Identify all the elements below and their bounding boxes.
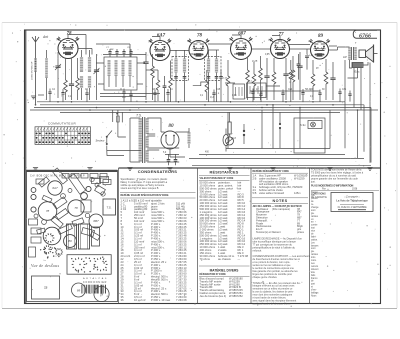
osc trimmer	[122, 52, 125, 54]
capacitor	[259, 94, 262, 96]
svg-text:6A7: 6A7	[52, 186, 58, 190]
wire	[338, 47, 369, 68]
wire	[225, 83, 280, 86]
wire	[161, 131, 190, 133]
wire	[165, 154, 179, 165]
chassis component block	[53, 168, 68, 184]
svg-text:port: port	[311, 283, 315, 286]
wire	[292, 56, 294, 100]
wire	[312, 60, 314, 100]
capacitor	[301, 93, 304, 95]
wire	[57, 52, 59, 98]
svg-text:89: 89	[68, 239, 72, 243]
oscillator coil assembly	[104, 57, 137, 90]
socket circle 89	[72, 283, 86, 297]
wire	[299, 108, 301, 149]
svg-text:Jeu de boutons (les 4)W 686725: Jeu de boutons (les 4)W 6867252	[200, 294, 244, 298]
wire	[299, 52, 301, 100]
wire	[38, 94, 44, 96]
chassis hole	[61, 194, 66, 199]
svg-text:0,1: 0,1	[210, 95, 214, 99]
svg-text:0,1: 0,1	[122, 95, 126, 99]
chassis component block	[72, 218, 84, 226]
resistor R5	[156, 80, 160, 90]
svg-text:change: change	[311, 207, 319, 209]
wire	[152, 37, 160, 41]
trimmer caps T2	[207, 77, 211, 79]
ground	[327, 168, 332, 171]
wire	[112, 110, 114, 122]
resistor R12	[291, 70, 295, 82]
svg-text:lampes: lampes	[311, 245, 319, 247]
wire	[30, 109, 378, 111]
wire	[147, 148, 179, 162]
wire	[206, 70, 208, 100]
svg-text:sont: sont	[311, 209, 316, 212]
svg-text:T.S.: T.S.	[136, 114, 142, 118]
wire	[266, 58, 268, 100]
chassis transformer block	[103, 199, 116, 215]
capacitor	[166, 93, 169, 95]
wire	[253, 62, 255, 100]
chassis hole	[68, 189, 72, 193]
osc trimmer	[129, 52, 132, 54]
svg-text:89: 89	[77, 289, 81, 293]
chassis part	[29, 219, 38, 225]
junction	[204, 104, 206, 106]
wire	[157, 70, 159, 101]
resistor R4	[151, 66, 155, 78]
chassis socket 6A7	[48, 181, 62, 195]
alignment stripe block	[82, 285, 106, 294]
svg-text:RÉSISTANCES: RÉSISTANCES	[210, 170, 239, 175]
wire	[227, 60, 229, 102]
chassis component block	[39, 177, 50, 187]
osc trimmer	[115, 52, 118, 54]
svg-text:MF1: MF1	[190, 54, 195, 56]
capacitor	[129, 94, 132, 96]
pin ring	[84, 263, 85, 265]
trimmer caps T1	[174, 77, 178, 79]
capacitor	[122, 92, 125, 94]
capacitor C12	[283, 74, 288, 76]
capacitor	[338, 92, 341, 94]
osc coil winding 1	[108, 60, 111, 76]
RF transformer L3/L4	[80, 57, 83, 72]
dial escutcheon rect	[32, 276, 60, 299]
junction	[96, 107, 98, 109]
chassis socket hole	[31, 207, 36, 212]
svg-text:La Voix de Téléphonique: La Voix de Téléphonique	[336, 198, 368, 202]
wire	[369, 63, 371, 102]
wire	[209, 50, 217, 102]
chassis part	[31, 237, 41, 243]
ground	[367, 168, 372, 171]
junction	[266, 104, 268, 106]
chassis socket 78	[38, 202, 57, 221]
svg-text:REPÈRE VALEUR SPÉCIFICATION: REPÈRE VALEUR SPÉCIFICATION N°CODE	[121, 194, 170, 197]
cathode resistor R2	[76, 78, 80, 90]
svg-text:T.S.: T.S.	[106, 206, 111, 210]
svg-text:A R T A L P A S: A R T A L P A S	[83, 277, 107, 280]
capacitor	[212, 93, 215, 95]
wire	[130, 49, 132, 57]
svg-text:chaque genre d'ondes.: chaque genre d'ondes.	[253, 276, 278, 279]
svg-text:CONDENSATEURS: CONDENSATEURS	[138, 169, 177, 174]
svg-text:pièces: pièces	[311, 198, 318, 200]
wire	[100, 96, 146, 98]
wire	[192, 164, 371, 166]
wire	[164, 76, 166, 102]
svg-text:C31: C31	[342, 89, 347, 91]
wire	[130, 118, 140, 162]
junction	[261, 107, 263, 109]
chassis part	[31, 228, 41, 234]
rectifier tube 80	[161, 131, 179, 149]
svg-text:Tension(s) et filamentprises: Tension(s) et filamentprises	[256, 230, 305, 234]
junction	[285, 101, 287, 103]
svg-text:ga-: ga-	[311, 213, 315, 215]
resistor R1	[64, 80, 68, 92]
drawing number tab 6766	[353, 30, 377, 38]
capacitor	[61, 93, 64, 95]
stamp box	[331, 193, 373, 212]
wire	[272, 36, 280, 40]
chassis MF block 3	[92, 227, 100, 246]
svg-text:77: 77	[279, 33, 285, 38]
svg-text:re-: re-	[311, 203, 314, 206]
filter caps under rectifier	[167, 160, 171, 162]
wire	[357, 110, 359, 158]
svg-text:Nous: Nous	[311, 295, 317, 297]
wire	[129, 76, 131, 87]
svg-text:HP: HP	[343, 55, 347, 59]
chassis socket 6B7	[89, 214, 103, 228]
svg-text:c: c	[148, 55, 149, 57]
svg-text:REPÈRE DÉSIGNATION: REPÈRE DÉSIGNATION N° CODE	[253, 170, 290, 173]
junction	[116, 113, 118, 115]
svg-text:VALEUR PUISSANCE N° CODE: VALEUR PUISSANCE N° CODE	[200, 177, 234, 180]
ground	[227, 168, 232, 171]
svg-text:Secteur: Secteur	[96, 139, 105, 143]
capacitor	[48, 92, 51, 94]
wire	[116, 49, 118, 57]
capacitor C2	[69, 84, 74, 86]
antenna coil L1	[34, 58, 37, 72]
wire	[329, 47, 338, 50]
junction	[299, 107, 301, 109]
fuse	[117, 116, 120, 122]
scan sheet edges	[2, 22, 397, 24]
svg-text:78: 78	[46, 209, 50, 213]
chassis component block	[42, 195, 52, 202]
chassis hole	[101, 192, 105, 196]
wire	[167, 89, 169, 102]
osc coil winding 3	[122, 60, 125, 76]
svg-text:c: c	[186, 54, 187, 56]
wire	[252, 89, 254, 102]
wire	[108, 76, 110, 87]
wire	[325, 59, 327, 100]
wire	[290, 48, 311, 50]
wire	[360, 68, 362, 110]
chassis part	[100, 177, 109, 183]
chassis component block	[58, 224, 73, 234]
capacitor	[281, 93, 284, 95]
resistor R6b	[169, 78, 173, 88]
junction	[35, 104, 37, 106]
chassis hole	[34, 214, 38, 218]
wire	[96, 44, 130, 57]
chassis socket 78	[68, 200, 84, 216]
svg-text:cation.: cation.	[311, 238, 318, 241]
wire	[252, 48, 271, 50]
wire	[348, 68, 358, 78]
svg-text:DÉSIGNATION N° CODE: DÉSIGNATION N° CODE	[200, 273, 227, 276]
wire	[123, 49, 125, 57]
pin ring	[106, 263, 107, 265]
wire	[62, 89, 64, 102]
svg-text:0,05: 0,05	[232, 95, 237, 97]
tone capacitor C15	[330, 78, 335, 80]
wire	[226, 148, 330, 150]
coupling cap C13	[297, 66, 302, 68]
trimmer C3	[94, 70, 99, 72]
chassis socket hole	[81, 193, 88, 200]
chassis socket hole	[31, 188, 36, 193]
chassis socket 77	[43, 227, 61, 245]
IF transformer T1	[172, 57, 189, 81]
svg-text:6766: 6766	[359, 33, 371, 39]
junction	[89, 109, 91, 111]
tube 89	[309, 39, 330, 59]
table column dividers	[119, 168, 381, 304]
wire	[332, 62, 334, 100]
chassis part	[71, 174, 79, 179]
svg-text:COMMUTATEUR: COMMUTATEUR	[48, 122, 77, 126]
chassis socket hole	[31, 194, 36, 199]
svg-text:MF2: MF2	[234, 54, 239, 56]
ground	[127, 168, 132, 171]
svg-text:31, RUE DU 4 SEPTEMBRE: 31, RUE DU 4 SEPTEMBRE	[337, 207, 367, 209]
wire	[68, 35, 86, 55]
wire	[184, 78, 186, 102]
chassis component block	[51, 216, 63, 228]
svg-text:doivent: doivent	[311, 268, 319, 271]
chassis hole	[85, 213, 89, 217]
AVC box	[233, 84, 245, 99]
wire	[319, 90, 321, 102]
wire	[339, 89, 341, 102]
wire	[260, 91, 262, 102]
ground	[33, 168, 38, 171]
wire	[208, 49, 219, 51]
resistor	[259, 68, 263, 80]
wire	[71, 59, 73, 101]
svg-text:6B7: 6B7	[93, 219, 99, 223]
chassis component block	[81, 200, 91, 212]
junction	[178, 101, 180, 103]
chassis part	[29, 247, 36, 257]
wire	[189, 158, 364, 160]
IF transformer T2	[205, 57, 222, 81]
pin ring	[53, 237, 54, 239]
wire	[220, 70, 222, 102]
speaker	[359, 45, 378, 63]
capacitor C22	[297, 64, 301, 66]
wire	[40, 104, 364, 106]
capacitor	[153, 93, 156, 95]
tube 6A7	[149, 39, 171, 61]
wire	[272, 105, 274, 149]
wire	[109, 49, 111, 57]
wire	[363, 105, 365, 152]
svg-text:LONG MOYEN SP: LONG MOYEN SP	[32, 61, 34, 80]
ground	[167, 168, 172, 171]
resistor R11	[272, 72, 276, 84]
junction	[57, 101, 59, 103]
wire	[170, 149, 185, 157]
svg-text:0,25: 0,25	[265, 54, 270, 56]
detector network box	[247, 83, 267, 98]
svg-text:tout: tout	[311, 227, 315, 230]
ground	[87, 168, 92, 171]
capacitor	[85, 93, 88, 95]
ground	[31, 96, 36, 99]
chassis component block	[53, 197, 67, 209]
svg-text:fabri-: fabri-	[311, 235, 316, 238]
wire	[122, 76, 124, 87]
wire	[49, 89, 51, 102]
wire	[34, 107, 371, 109]
electrolytic capacitor 2	[243, 130, 245, 132]
wire	[147, 118, 161, 136]
tuning capacitor CV1	[55, 66, 60, 68]
wire	[121, 112, 123, 122]
wire	[176, 50, 185, 102]
capacitor	[348, 94, 351, 96]
junction	[230, 101, 232, 103]
socket circle 78	[94, 286, 109, 301]
wire	[96, 54, 98, 100]
wire	[344, 102, 346, 149]
svg-text:ballage.: ballage.	[311, 293, 319, 295]
svg-text:78: 78	[197, 34, 203, 39]
chassis layout diagram	[27, 171, 118, 302]
capacitor	[318, 93, 321, 95]
wire	[213, 90, 215, 102]
chassis part	[36, 179, 44, 184]
wire	[329, 110, 331, 149]
svg-text:propre garantie des sur l': propre garantie des sur l'ensemble du co…	[311, 177, 358, 180]
svg-text:Toutes: Toutes	[311, 191, 319, 194]
wire	[60, 111, 340, 113]
wire	[86, 90, 88, 102]
svg-text:franco: franco	[311, 277, 318, 280]
svg-text:5 Bvalve selfeur Grissard125m: 5 Bvalve selfeur Grissard125m	[253, 191, 301, 195]
chassis part	[62, 174, 69, 179]
chassis component block	[103, 180, 111, 185]
chassis socket 89	[64, 235, 77, 248]
coupling coil L2	[45, 58, 48, 78]
pin ring	[50, 249, 51, 251]
wire	[250, 90, 320, 92]
wire	[227, 112, 229, 148]
svg-text:CORDONNIER: CORDONNIER	[83, 281, 107, 284]
wire	[145, 52, 147, 100]
socket detail panel	[67, 255, 111, 275]
wire	[247, 58, 249, 100]
resistor R20	[289, 70, 293, 79]
wire	[170, 61, 172, 102]
svg-text:78: 78	[44, 286, 48, 290]
svg-text:retours: retours	[311, 265, 319, 268]
field coil (excitation)	[352, 63, 363, 68]
junction	[272, 104, 274, 106]
wire	[302, 89, 304, 102]
svg-text:PLUS MODERNES D'INFORMATION: PLUS MODERNES D'INFORMATION	[311, 184, 354, 187]
wire	[216, 78, 218, 102]
resistor	[252, 74, 256, 86]
wire	[37, 101, 345, 103]
mains switch secteur	[107, 131, 124, 156]
svg-text:sont: sont	[311, 247, 316, 250]
capacitor C6b	[163, 86, 167, 88]
wire	[103, 54, 146, 56]
junction	[145, 101, 147, 103]
output transformer	[352, 47, 354, 60]
wire	[118, 110, 126, 137]
chassis component block	[81, 228, 94, 237]
junction	[332, 104, 334, 106]
svg-text:78: 78	[74, 206, 78, 210]
wire	[107, 150, 141, 152]
capacitor	[264, 76, 269, 78]
wire	[273, 58, 275, 100]
resistor R14	[311, 74, 315, 86]
wire	[289, 44, 310, 46]
wire	[306, 49, 308, 70]
chassis socket hole	[86, 186, 91, 191]
wire	[349, 91, 351, 102]
wire	[146, 69, 158, 71]
junction	[312, 101, 314, 103]
wire	[65, 58, 67, 100]
svg-text:Ant: Ant	[42, 35, 49, 39]
wire	[188, 128, 190, 148]
padding capacitor C5	[143, 62, 148, 64]
filter choke	[188, 132, 191, 144]
wire	[123, 89, 125, 102]
chassis hole	[90, 177, 94, 181]
svg-text:visant aux Fig R et deux coupe: visant aux Fig R et deux coupes B	[121, 187, 159, 190]
svg-text:vice: vice	[311, 231, 316, 233]
wire	[46, 50, 48, 100]
chassis component block	[68, 174, 85, 194]
resistor	[246, 70, 250, 82]
pilot lamp assembly	[294, 118, 325, 153]
svg-text:mois.: mois.	[311, 260, 317, 262]
wire	[96, 63, 145, 84]
osc coil winding 4	[129, 60, 132, 76]
junction	[129, 109, 131, 111]
svg-text:687: 687	[238, 32, 246, 37]
chassis hole	[95, 183, 99, 187]
wire	[329, 45, 337, 47]
svg-text:C.V. BOB OSC M.F.1 M.F.2 D: C.V. BOB OSC M.F.1 M.F.2 DET B.F. H.P.	[30, 175, 86, 178]
wire	[82, 50, 90, 100]
wire	[285, 58, 287, 100]
